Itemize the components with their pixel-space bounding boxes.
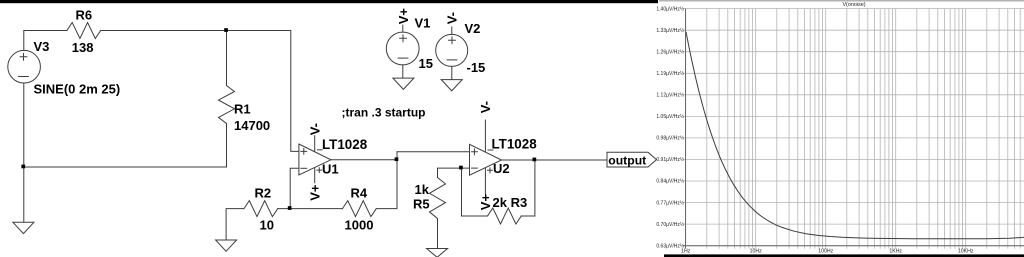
svg-text:0.70µV/Hz½: 0.70µV/Hz½ xyxy=(656,221,684,228)
resistor R6 zigzag xyxy=(67,23,101,39)
svg-text:0.77µV/Hz½: 0.77µV/Hz½ xyxy=(656,199,684,206)
svg-text:1.33µV/Hz½: 1.33µV/Hz½ xyxy=(656,27,684,34)
svg-text:1000: 1000 xyxy=(345,218,374,233)
V3 minus mark xyxy=(19,76,29,78)
junction dot U2 output node xyxy=(533,158,537,162)
wire R4 right up to U1 output node xyxy=(376,152,397,209)
op-amp U2 triangle xyxy=(470,144,502,175)
U2 V+ supply stub xyxy=(484,168,486,194)
ground under R2 xyxy=(216,240,237,251)
svg-text:V2: V2 xyxy=(465,21,481,36)
svg-text:LT1028: LT1028 xyxy=(322,137,368,152)
resistor R5 zigzag xyxy=(430,178,446,219)
svg-text:V+: V+ xyxy=(307,184,322,201)
ground under R5 xyxy=(427,249,448,257)
svg-text:10Hz: 10Hz xyxy=(750,249,763,255)
svg-text:1.40µV/Hz½: 1.40µV/Hz½ xyxy=(656,5,684,12)
plot curve V(onoise) xyxy=(686,32,1024,239)
U1 V+ pin plus mark xyxy=(317,168,322,173)
junction dot U1 output node xyxy=(395,157,399,161)
resistor R3 zigzag xyxy=(488,208,522,224)
op-amp U1 triangle xyxy=(299,144,331,175)
V2 top stub to V- net label xyxy=(451,27,453,34)
svg-text:V+: V+ xyxy=(396,8,411,25)
ground under V2 xyxy=(441,80,462,91)
U2 V- pin minus mark xyxy=(488,149,493,151)
svg-text:14700: 14700 xyxy=(234,118,270,133)
wire R1 top lead from top net xyxy=(226,31,228,86)
plot panel top border xyxy=(659,0,1024,2)
svg-text:R4: R4 xyxy=(351,185,368,200)
wire V2 bottom to ground xyxy=(451,66,453,79)
V1 plus mark xyxy=(400,35,407,42)
wire R2 left to ground xyxy=(226,209,244,240)
svg-text:V-: V- xyxy=(478,101,493,113)
svg-text:1.19µV/Hz½: 1.19µV/Hz½ xyxy=(656,70,684,77)
svg-text:SINE(0 2m 25): SINE(0 2m 25) xyxy=(34,82,121,97)
junction dot bottom-left node xyxy=(21,165,25,169)
resistor R4 zigzag xyxy=(343,201,377,217)
U2 V- supply stub xyxy=(484,120,486,151)
svg-text:output: output xyxy=(608,153,646,167)
svg-text:R6: R6 xyxy=(76,8,93,23)
svg-text:0.84µV/Hz½: 0.84µV/Hz½ xyxy=(656,178,684,185)
svg-text:V-: V- xyxy=(445,12,460,24)
wire feedback node up to U1 minus input xyxy=(290,168,299,208)
voltage source V3 circle xyxy=(8,50,41,83)
svg-text:1.26µV/Hz½: 1.26µV/Hz½ xyxy=(656,48,684,55)
wire V3 top to R6 xyxy=(24,31,67,51)
plot x-axis labels xyxy=(681,249,974,255)
svg-text:1Hz: 1Hz xyxy=(681,249,691,255)
plot x-axis line xyxy=(683,245,1024,247)
junction dot R2/R4/U1- node xyxy=(288,206,292,210)
wire node to U2 plus input xyxy=(397,151,470,153)
wire U1 output to node xyxy=(331,159,397,161)
U1 V+ supply stub xyxy=(314,168,316,183)
svg-text:138: 138 xyxy=(72,40,94,55)
svg-text:15: 15 xyxy=(419,56,433,71)
svg-text:V+: V+ xyxy=(478,194,493,211)
svg-text:V1: V1 xyxy=(415,16,431,31)
V2 plus mark xyxy=(449,37,456,44)
resistor R1 zigzag xyxy=(219,86,235,124)
svg-text:R5: R5 xyxy=(413,197,430,212)
V1 top stub to V+ net label xyxy=(402,25,404,32)
plot y-axis line xyxy=(685,9,687,249)
V2 minus mark xyxy=(447,59,457,61)
ground under V1 xyxy=(393,78,414,89)
svg-text:1k: 1k xyxy=(415,182,430,197)
svg-text:1.12µV/Hz½: 1.12µV/Hz½ xyxy=(656,92,684,99)
svg-text:10KHz: 10KHz xyxy=(958,249,974,255)
svg-text:100Hz: 100Hz xyxy=(818,249,833,255)
U2 minus input mark xyxy=(472,167,478,169)
bottom status black bar xyxy=(664,254,1024,257)
output flag pentagon xyxy=(607,152,657,167)
voltage source V1 circle xyxy=(386,32,419,65)
svg-text:-15: -15 xyxy=(467,60,486,75)
wire U2 minus input to R5 top xyxy=(438,168,470,177)
wire minus node down to R3 left xyxy=(462,168,488,216)
svg-text:V3: V3 xyxy=(34,39,50,54)
svg-text:R1: R1 xyxy=(234,102,251,117)
U2 plus input mark xyxy=(472,149,478,155)
svg-text:1KHz: 1KHz xyxy=(889,249,902,255)
svg-text:0.98µV/Hz½: 0.98µV/Hz½ xyxy=(656,135,684,142)
plot grid vertical lines xyxy=(686,9,1021,249)
wire U2 output to output flag xyxy=(502,159,608,161)
wire R2 right to R4 left xyxy=(278,208,343,210)
svg-text:;tran .3 startup: ;tran .3 startup xyxy=(342,106,426,120)
wire bottom node to R1 bottom xyxy=(24,124,227,168)
svg-text:U2: U2 xyxy=(493,161,510,176)
U1 V- supply stub xyxy=(314,136,316,151)
svg-text:2k R3: 2k R3 xyxy=(493,195,528,210)
svg-text:V(onoise): V(onoise) xyxy=(842,2,865,8)
svg-text:V-: V- xyxy=(307,123,322,135)
plot grid horizontal lines xyxy=(683,9,1024,246)
U1 V- pin minus mark xyxy=(317,149,322,151)
wire V3 bottom to ground xyxy=(23,83,25,222)
svg-text:0.91µV/Hz½: 0.91µV/Hz½ xyxy=(656,156,684,163)
U1 minus input mark xyxy=(301,167,307,169)
U1 plus input mark xyxy=(301,149,307,155)
V3 plus mark xyxy=(20,53,27,60)
svg-text:R2: R2 xyxy=(255,185,272,200)
svg-text:LT1028: LT1028 xyxy=(492,137,538,152)
U2 V+ pin plus mark xyxy=(488,168,493,173)
V1 minus mark xyxy=(398,57,408,59)
top menu black bar xyxy=(0,0,658,3)
wire V1 bottom to ground xyxy=(402,65,404,78)
svg-text:10: 10 xyxy=(260,217,274,232)
junction dot top net / R1 xyxy=(224,28,228,32)
plot y-axis labels xyxy=(656,5,684,249)
wire R6 to U1 plus-input corner xyxy=(101,31,299,152)
voltage source V2 circle xyxy=(436,34,468,66)
junction dot U2 minus node xyxy=(459,166,463,170)
wire R3 right up to output node xyxy=(521,160,535,216)
wire R5 bottom to ground xyxy=(437,219,439,249)
ground under V3 xyxy=(13,222,34,233)
svg-text:U1: U1 xyxy=(322,162,339,177)
svg-text:1.05µV/Hz½: 1.05µV/Hz½ xyxy=(656,113,684,120)
resistor R2 zigzag xyxy=(244,201,278,217)
